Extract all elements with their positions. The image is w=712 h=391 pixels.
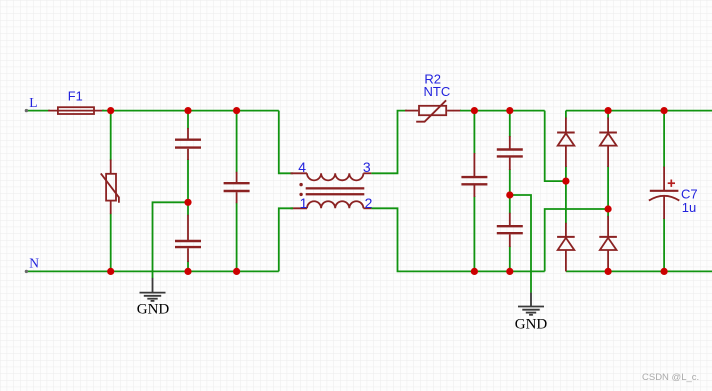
junction varistor bottom [107, 268, 114, 275]
capacitor CX1 branch wires [187, 111, 189, 272]
junction bridge D2 top [605, 107, 612, 114]
wire AC2 riser to bridge [545, 209, 608, 271]
diode D4 (bottom right) [599, 216, 617, 272]
capacitor CX3 [224, 172, 250, 203]
ground GND2 [518, 293, 544, 315]
wire xfmr pin2 to bottom rail right [371, 208, 608, 271]
junction CY3 bottom [506, 268, 513, 275]
C7 plus sign [668, 180, 675, 187]
wire elbow up to xfmr pin1 [279, 208, 293, 271]
diode D1 (top left) [557, 118, 575, 168]
svg-text:NTC: NTC [424, 84, 451, 99]
junction CY1 bottom [471, 268, 478, 275]
wire elbow down to xfmr pin4 [279, 111, 293, 174]
wire bridge bottom rail [566, 270, 712, 272]
svg-text:F1: F1 [68, 89, 83, 104]
svg-text:3: 3 [363, 159, 371, 175]
junction bridge D4 bottom [605, 268, 612, 275]
diode D2 (top right) [599, 118, 617, 168]
capacitor C7 branch wires [663, 111, 665, 272]
wire bridge branch1 mid [565, 166, 567, 224]
thermistor R2 [405, 100, 461, 121]
junction CY1 top [471, 107, 478, 114]
wire bridge top rail [566, 111, 712, 119]
junction F1/varistor top [107, 107, 114, 114]
capacitor CX3 branch wires [236, 111, 238, 272]
junction C7 top [661, 107, 668, 114]
svg-text:GND: GND [515, 317, 548, 333]
capacitor CY3 (lower) [497, 213, 523, 247]
capacitor CY2 (upper) [497, 136, 523, 170]
pin 3 lead [363, 172, 371, 174]
svg-text:4: 4 [298, 159, 306, 175]
bottom winding [307, 201, 363, 208]
svg-text:N: N [29, 256, 39, 271]
svg-text:1u: 1u [682, 200, 696, 215]
svg-text:1: 1 [300, 195, 308, 211]
node N pin endpoint [25, 270, 28, 273]
wire top rail left section [102, 111, 293, 174]
junction AC2 bridge right [605, 205, 612, 212]
wire L input to fuse [26, 110, 50, 112]
transformer T1 common-mode choke [291, 173, 372, 208]
varistor RV [101, 160, 119, 215]
capacitor CY1 [461, 153, 487, 197]
fuse F1 [48, 107, 104, 114]
junction C7 bottom [661, 268, 668, 275]
transformer polarity dots [299, 183, 302, 186]
wire bridge branch2 mid [607, 166, 609, 217]
svg-text:CSDN @L_c.: CSDN @L_c. [642, 372, 699, 383]
ground GND1 [140, 278, 166, 301]
junction CY2 top [506, 107, 513, 114]
wire R2 to bridge AC1 [460, 111, 566, 182]
wire GND1 tee from cap junction [153, 202, 189, 278]
diode D3 (bottom left) [557, 223, 575, 272]
pin 4 lead [291, 172, 308, 174]
junction CY2 mid / GND2 [506, 191, 513, 198]
svg-text:GND: GND [137, 302, 170, 318]
capacitor CX1 (upper) [175, 128, 201, 160]
transformer core bars [306, 187, 365, 189]
node L pin endpoint [25, 109, 28, 112]
top winding [307, 173, 363, 180]
capacitor CX2 (lower) [175, 215, 201, 262]
junction CX2 bottom [184, 268, 191, 275]
varistor RV branch wire [110, 111, 112, 272]
pin 2 lead [363, 207, 371, 209]
junction CX3 bottom [233, 268, 240, 275]
junction CX1 mid / GND1 [184, 199, 191, 206]
svg-text:L: L [29, 95, 37, 110]
junction CX3 top [233, 107, 240, 114]
capacitor CY1 branch wires [473, 111, 475, 272]
pin 1 lead [291, 207, 308, 209]
junction AC1 bridge left [562, 178, 569, 185]
wire N input rail [26, 208, 293, 271]
wire xfmr pin3 riser to R2 [371, 111, 407, 174]
junction CX1 top [184, 107, 191, 114]
wire GND2 tee [510, 195, 531, 293]
capacitor CY2 branch wires [509, 111, 511, 272]
capacitor C7 polarized [649, 167, 679, 219]
